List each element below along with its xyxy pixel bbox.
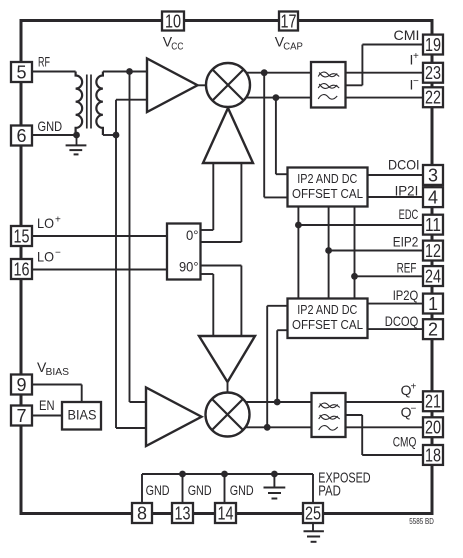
wire Q out+ tap vertical to cal2 — [276, 330, 278, 402]
svg-text:GND: GND — [38, 118, 63, 134]
svg-text:25: 25 — [305, 503, 321, 523]
pin 5 RF — [11, 62, 32, 82]
svg-text:−: − — [411, 404, 417, 415]
pin 19 CMI — [423, 35, 443, 55]
svg-text:GND: GND — [146, 483, 170, 498]
svg-text:24: 24 — [425, 266, 441, 286]
wire 0deg vertical a to I LO amp — [212, 163, 214, 230]
svg-text:IP2 AND DC: IP2 AND DC — [297, 303, 357, 317]
pin 11 EDC — [423, 215, 443, 235]
svg-text:22: 22 — [425, 88, 441, 108]
svg-text:RF: RF — [38, 54, 50, 70]
svg-text:2: 2 — [428, 320, 438, 340]
wire 90deg out a — [201, 265, 242, 267]
wire gnd drop pin8 — [141, 474, 143, 504]
wire EDC to pin11 — [298, 224, 423, 226]
wire gnd drop to ground sym — [273, 474, 275, 487]
svg-text:CAP: CAP — [283, 41, 303, 53]
svg-text:11: 11 — [425, 215, 441, 235]
svg-text:18: 18 — [425, 445, 441, 465]
svg-text:21: 21 — [425, 392, 441, 412]
node rail pin13 junction — [179, 471, 186, 478]
wire VBIAS down to bias box — [81, 385, 83, 404]
bias box — [62, 402, 101, 430]
svg-text:16: 16 — [14, 259, 30, 279]
wire IP2Q cal2 to pin1 — [367, 303, 423, 305]
wire into Q amp input 2 — [116, 427, 147, 429]
wire into cal1 input lower — [264, 196, 288, 198]
pin 25 exposed pad — [303, 503, 323, 523]
wire VBIAS pin9 — [30, 384, 82, 386]
wire transformer secondary top to I amp — [103, 71, 148, 73]
wire into Q amp input 1 — [130, 401, 148, 403]
wire Q LO amp to mixer — [227, 378, 229, 394]
wire mixer I output+ to filter — [228, 72, 312, 74]
filter Q (lowpass) — [312, 393, 346, 437]
mixer I — [206, 63, 250, 107]
svg-text:3: 3 — [428, 165, 438, 185]
ground at bottom rail — [264, 487, 286, 489]
node Q out+ tap — [274, 399, 281, 406]
svg-text:OFFSET CAL: OFFSET CAL — [292, 318, 363, 332]
svg-text:LO: LO — [37, 249, 54, 265]
node EDC tap — [295, 222, 302, 229]
svg-text:CMI: CMI — [394, 27, 420, 43]
svg-text:GND: GND — [188, 483, 212, 498]
svg-text:6: 6 — [16, 126, 26, 146]
IP2 and DC offset cal Q box — [288, 299, 368, 339]
pin 4 IP2I — [423, 187, 443, 207]
wire mixer Q output- to filter — [228, 426, 312, 428]
pin 21 Q+ — [423, 391, 443, 411]
IC package border — [21, 21, 432, 514]
node rail pin14 junction — [221, 471, 228, 478]
transformer T1 primary winding — [76, 72, 83, 136]
svg-text:9: 9 — [16, 375, 26, 395]
svg-text:−: − — [55, 248, 61, 259]
node REF tap — [351, 273, 358, 280]
pin 18 CMQ — [423, 445, 443, 465]
IP2 and DC offset cal I box — [288, 168, 368, 207]
wire 90deg vertical a to Q LO amp — [240, 266, 242, 337]
node I out- tap — [273, 94, 280, 101]
op-amp I LO amplifier — [203, 108, 253, 163]
op-amp Q RF amplifier — [146, 388, 202, 447]
op-amp Q LO amplifier — [199, 336, 255, 382]
wire into cal2 input lower — [277, 329, 288, 331]
svg-text:12: 12 — [425, 241, 441, 261]
wire IP2I cal1 to pin4 — [367, 196, 423, 198]
wire gnd drop pin25 — [312, 474, 314, 504]
wire GND pin6 to transformer — [30, 134, 77, 136]
svg-text:REF: REF — [397, 259, 417, 275]
pin 2 DCOQ — [423, 319, 443, 339]
transformer T1 core — [86, 75, 88, 129]
wire 90deg vertical b to Q LO amp — [212, 274, 214, 336]
transformer T1 secondary winding — [96, 72, 103, 136]
phase shifter 0/90 box — [167, 224, 201, 280]
pin 23 I+ — [423, 63, 443, 83]
svg-text:+: + — [55, 215, 61, 226]
filter I (lowpass) — [311, 62, 346, 108]
pin 13 GND — [172, 503, 193, 523]
svg-text:EN: EN — [39, 397, 55, 413]
svg-text:OFFSET CAL: OFFSET CAL — [292, 187, 363, 201]
wire RF+ vertical to Q amp — [129, 72, 131, 403]
svg-text:+: + — [411, 382, 417, 393]
svg-text:DCOI: DCOI — [388, 157, 420, 173]
pin 8 GND — [132, 503, 152, 523]
wire Q+ filter to pin21 — [346, 401, 424, 403]
wire CMI vertical — [361, 45, 363, 86]
wire RF- vertical to Q amp — [115, 100, 117, 428]
wire 0deg vertical b to I LO amp — [240, 163, 242, 242]
svg-text:GND: GND — [230, 483, 254, 498]
svg-text:8: 8 — [137, 503, 147, 523]
wire I+ filter to pin23 — [346, 72, 424, 74]
node GND junction — [73, 132, 80, 139]
svg-text:0°: 0° — [186, 227, 199, 243]
svg-text:19: 19 — [425, 35, 441, 55]
wire EIP2 to pin12 — [329, 250, 423, 252]
svg-text:DCOQ: DCOQ — [385, 313, 419, 329]
wire I- filter to pin22 — [346, 97, 424, 99]
svg-text:5: 5 — [16, 62, 26, 82]
wire I out+ tap vertical to cal1 — [263, 73, 265, 198]
ground under transformer — [76, 135, 78, 145]
svg-text:10: 10 — [165, 11, 181, 31]
wire CMI to pin19 — [362, 44, 423, 46]
ground under exposed pad pin25 — [304, 530, 324, 532]
pin 24 REF — [423, 266, 443, 286]
wire CMI from filter — [346, 84, 363, 86]
svg-text:BIAS: BIAS — [46, 366, 70, 378]
svg-text:23: 23 — [425, 63, 441, 83]
svg-text:IP2I: IP2I — [395, 182, 419, 198]
pin 1 IP2Q — [423, 294, 443, 314]
pin 12 EIP2 — [423, 241, 443, 261]
wire RF pin5 to transformer primary — [30, 71, 76, 73]
svg-text:+: + — [413, 51, 419, 62]
svg-text:14: 14 — [218, 503, 234, 523]
svg-text:13: 13 — [175, 503, 191, 523]
wire mixer I output- to filter — [228, 97, 312, 99]
svg-text:4: 4 — [428, 188, 438, 208]
wire 0deg out a — [201, 229, 214, 231]
wire I out- tap vertical to cal1 — [275, 98, 277, 175]
svg-text:CMQ: CMQ — [393, 434, 417, 450]
svg-text:1: 1 — [428, 294, 438, 314]
wire 90deg out b — [201, 273, 214, 275]
pin 9 VBIAS — [11, 375, 32, 395]
wire REF to pin24 — [355, 275, 424, 277]
svg-text:5585 BD: 5585 BD — [409, 516, 434, 526]
svg-text:EDC: EDC — [399, 206, 419, 222]
wire into cal1 input upper — [276, 173, 288, 175]
wire Q out- tap vertical to cal2 — [266, 306, 268, 428]
svg-text:20: 20 — [425, 418, 441, 438]
pin 20 Q- — [423, 417, 443, 437]
wire gnd drop pin14 — [224, 474, 226, 504]
op-amp I RF amplifier — [147, 59, 198, 113]
wire Q- filter to pin20 — [346, 426, 424, 428]
wire LO- pin16 to phase shifter — [30, 269, 167, 271]
svg-text:BIAS: BIAS — [68, 407, 97, 423]
wire CMQ vertical — [361, 415, 363, 455]
pin 17 VCAP — [279, 12, 298, 31]
svg-text:7: 7 — [16, 406, 26, 426]
wire into cal2 input upper — [267, 305, 288, 307]
wire cal1-cal2 vertical REF — [354, 207, 356, 299]
wire gnd rail — [142, 473, 313, 475]
pin 14 GND — [215, 503, 236, 523]
svg-text:CC: CC — [171, 41, 184, 53]
wire CMQ to pin18 — [362, 454, 423, 456]
wire LO+ pin15 to phase shifter — [30, 235, 167, 237]
pin 10 VCC — [162, 12, 184, 31]
pin 3 DCOI — [423, 165, 443, 185]
wire CMQ from filter — [346, 414, 363, 416]
wire 0deg out b — [201, 241, 242, 243]
svg-text:−: − — [413, 76, 419, 87]
pin 16 LO- — [11, 259, 32, 279]
mixer Q — [206, 393, 250, 437]
wire DCOQ cal2 to pin2 — [367, 328, 423, 330]
node EIP2 tap — [325, 247, 332, 254]
wire I amp out to mixer — [198, 84, 208, 86]
svg-text:17: 17 — [281, 11, 297, 31]
wire cal1-cal2 vertical EDC — [297, 207, 299, 299]
pin 7 EN — [11, 406, 32, 426]
wire pin25 to ground — [312, 522, 314, 531]
svg-text:90°: 90° — [179, 259, 199, 275]
wire DCOI cal1 to pin3 — [367, 174, 423, 176]
svg-text:PAD: PAD — [318, 483, 341, 499]
wire cal1-cal2 vertical EIP2 — [328, 207, 330, 299]
node RF- junction — [113, 132, 120, 139]
svg-text:IP2Q: IP2Q — [393, 287, 419, 303]
wire secondary bottom to vertical — [103, 134, 117, 136]
node I out+ tap — [261, 69, 268, 76]
pin 6 GND — [11, 126, 32, 146]
wire gnd drop pin13 — [182, 474, 184, 504]
node rail gnd junction — [271, 471, 278, 478]
svg-text:EIP2: EIP2 — [393, 234, 419, 250]
wire EN pin7 to bias box — [30, 415, 63, 417]
wire into I amp input 2 — [116, 99, 148, 101]
svg-text:15: 15 — [14, 226, 30, 246]
pin 22 I- — [423, 87, 443, 107]
pin 15 LO+ — [11, 226, 32, 246]
node Q out- tap — [264, 424, 271, 431]
wire mixer Q output+ to filter — [228, 401, 312, 403]
svg-text:LO: LO — [37, 215, 54, 231]
svg-text:IP2 AND DC: IP2 AND DC — [297, 172, 357, 186]
node RF+ junction — [126, 68, 133, 75]
